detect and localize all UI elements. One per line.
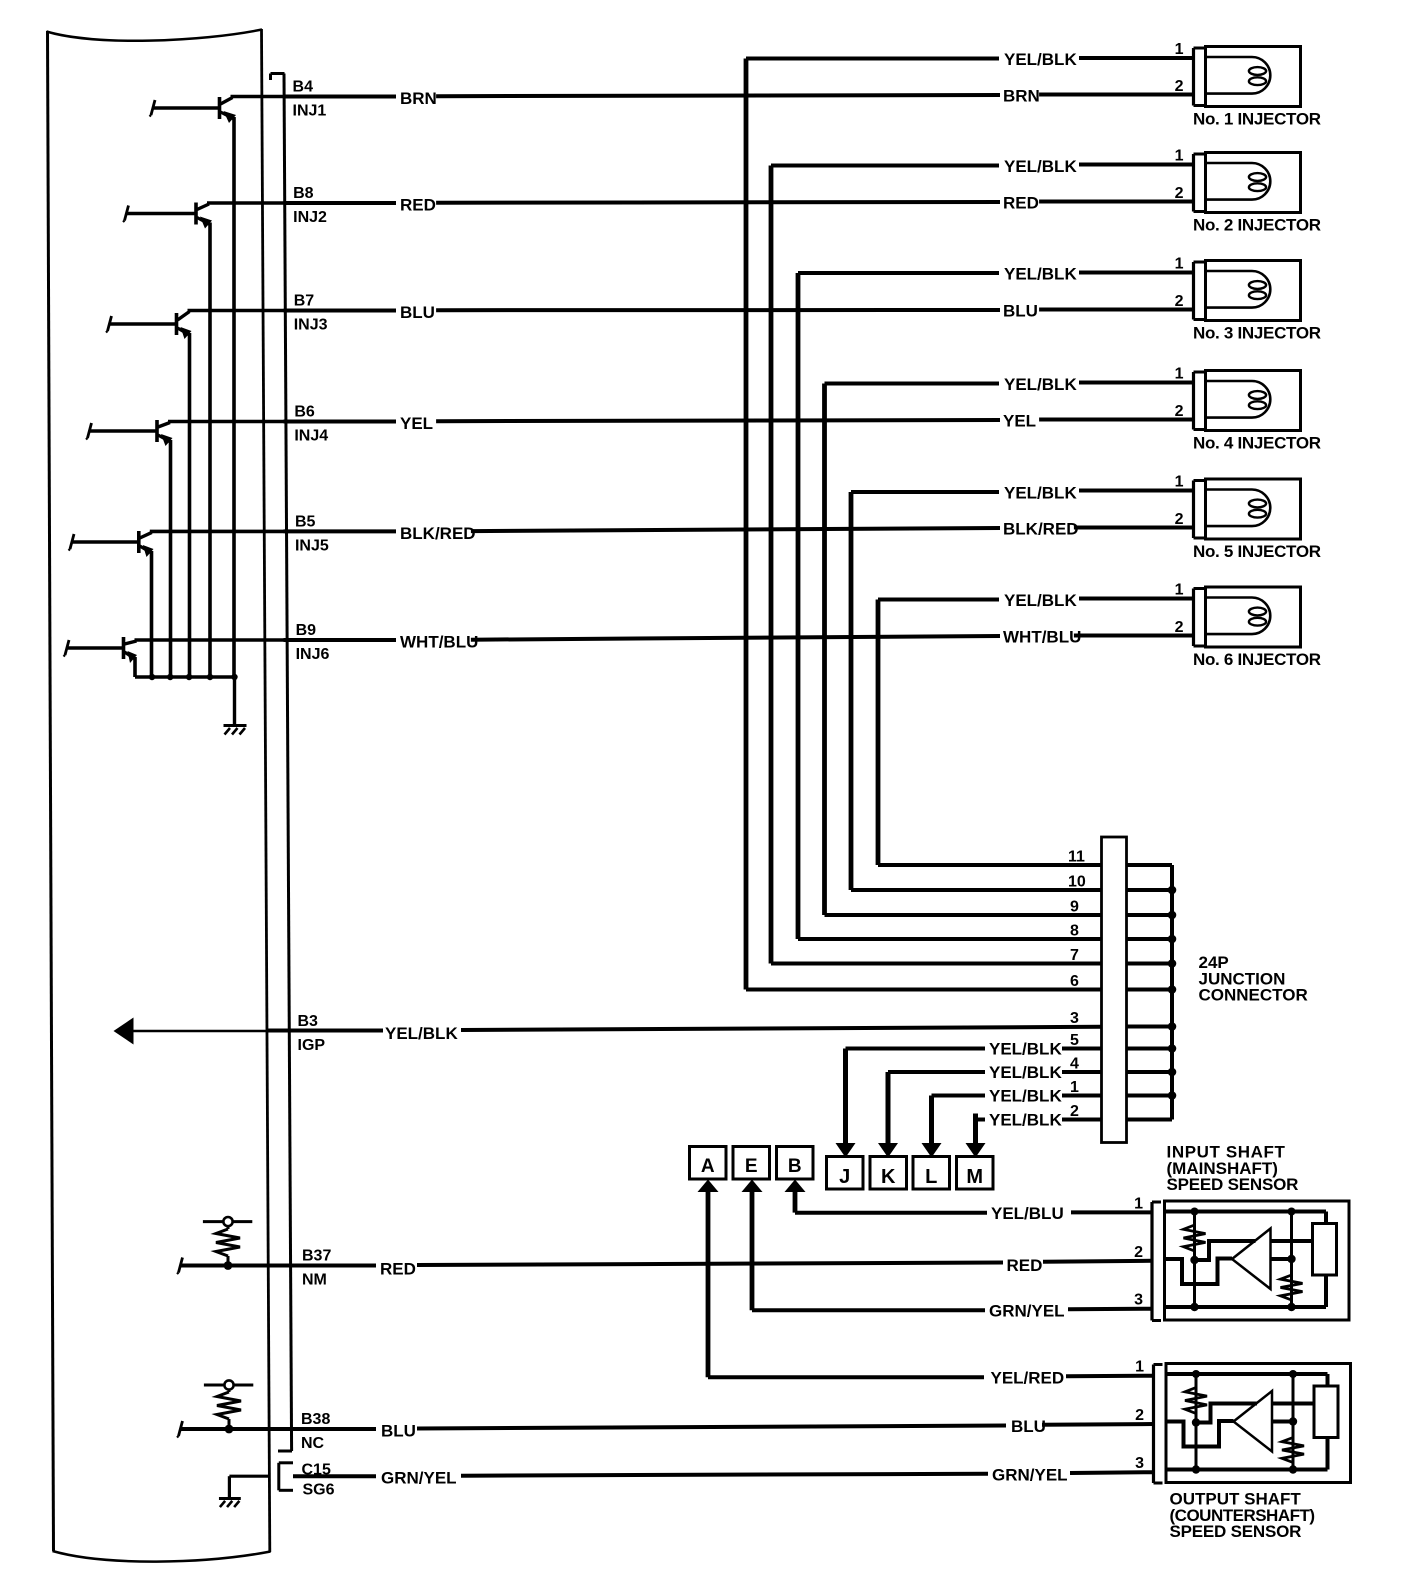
svg-text:10: 10 bbox=[1068, 874, 1086, 891]
svg-text:No. 6 INJECTOR: No. 6 INJECTOR bbox=[1193, 650, 1321, 669]
svg-text:1: 1 bbox=[1135, 1359, 1144, 1376]
svg-text:INJ3: INJ3 bbox=[294, 317, 328, 334]
svg-text:RED: RED bbox=[1003, 194, 1039, 213]
svg-text:3: 3 bbox=[1135, 1455, 1144, 1472]
svg-text:SG6: SG6 bbox=[303, 1482, 335, 1499]
svg-text:1: 1 bbox=[1070, 1079, 1079, 1096]
svg-text:2: 2 bbox=[1175, 78, 1184, 95]
svg-text:YEL/BLK: YEL/BLK bbox=[1004, 375, 1077, 394]
svg-text:GRN/YEL: GRN/YEL bbox=[992, 1466, 1068, 1485]
svg-text:8: 8 bbox=[1070, 923, 1079, 940]
svg-text:L: L bbox=[925, 1166, 937, 1188]
svg-text:RED: RED bbox=[380, 1260, 416, 1279]
svg-text:1: 1 bbox=[1175, 41, 1184, 58]
svg-text:YEL/BLK: YEL/BLK bbox=[1004, 50, 1077, 69]
svg-text:YEL/BLK: YEL/BLK bbox=[989, 1087, 1062, 1106]
svg-text:IGP: IGP bbox=[298, 1037, 326, 1054]
svg-text:B4: B4 bbox=[293, 79, 314, 96]
svg-text:INJ5: INJ5 bbox=[295, 537, 329, 554]
svg-text:GRN/YEL: GRN/YEL bbox=[381, 1469, 457, 1488]
svg-text:NM: NM bbox=[302, 1272, 327, 1289]
svg-text:No. 2 INJECTOR: No. 2 INJECTOR bbox=[1193, 216, 1321, 235]
svg-text:YEL/BLK: YEL/BLK bbox=[1004, 484, 1077, 503]
svg-text:BLK/RED: BLK/RED bbox=[400, 524, 476, 543]
svg-text:2: 2 bbox=[1134, 1244, 1143, 1261]
svg-text:B6: B6 bbox=[294, 404, 315, 421]
svg-text:E: E bbox=[745, 1156, 758, 1177]
svg-text:BLU: BLU bbox=[381, 1422, 416, 1441]
svg-text:BLU: BLU bbox=[400, 303, 435, 322]
svg-text:B5: B5 bbox=[295, 513, 316, 530]
svg-text:2: 2 bbox=[1175, 403, 1184, 420]
svg-text:WHT/BLU: WHT/BLU bbox=[1003, 628, 1081, 647]
svg-text:YEL/BLK: YEL/BLK bbox=[385, 1024, 458, 1043]
svg-text:BLU: BLU bbox=[1011, 1417, 1046, 1436]
svg-text:RED: RED bbox=[1007, 1256, 1043, 1275]
svg-text:2: 2 bbox=[1175, 511, 1184, 528]
svg-text:3: 3 bbox=[1134, 1292, 1143, 1309]
svg-text:9: 9 bbox=[1070, 899, 1079, 916]
svg-text:1: 1 bbox=[1175, 582, 1184, 599]
svg-text:7: 7 bbox=[1070, 947, 1079, 964]
svg-text:3: 3 bbox=[1070, 1010, 1079, 1027]
svg-text:B9: B9 bbox=[296, 622, 317, 639]
svg-text:2: 2 bbox=[1135, 1407, 1144, 1424]
svg-text:No. 3 INJECTOR: No. 3 INJECTOR bbox=[1193, 324, 1321, 343]
svg-text:No. 4 INJECTOR: No. 4 INJECTOR bbox=[1193, 434, 1321, 453]
svg-text:GRN/YEL: GRN/YEL bbox=[989, 1302, 1065, 1321]
svg-text:SPEED SENSOR: SPEED SENSOR bbox=[1167, 1175, 1299, 1194]
svg-text:No. 5 INJECTOR: No. 5 INJECTOR bbox=[1193, 542, 1321, 561]
svg-text:SPEED SENSOR: SPEED SENSOR bbox=[1170, 1522, 1302, 1541]
svg-text:YEL/BLK: YEL/BLK bbox=[1004, 157, 1077, 176]
svg-text:BRN: BRN bbox=[1003, 87, 1040, 106]
svg-text:1: 1 bbox=[1175, 366, 1184, 383]
svg-text:WHT/BLU: WHT/BLU bbox=[400, 633, 478, 652]
svg-text:A: A bbox=[701, 1156, 715, 1177]
svg-text:1: 1 bbox=[1175, 474, 1184, 491]
svg-text:4: 4 bbox=[1070, 1056, 1079, 1073]
svg-text:YEL/BLU: YEL/BLU bbox=[991, 1204, 1064, 1223]
svg-text:YEL/RED: YEL/RED bbox=[991, 1369, 1065, 1388]
svg-text:YEL/BLK: YEL/BLK bbox=[989, 1063, 1062, 1082]
svg-text:BRN: BRN bbox=[400, 89, 437, 108]
svg-text:YEL/BLK: YEL/BLK bbox=[1004, 265, 1077, 284]
svg-text:2: 2 bbox=[1175, 293, 1184, 310]
svg-text:YEL/BLK: YEL/BLK bbox=[989, 1040, 1062, 1059]
svg-text:B37: B37 bbox=[302, 1248, 331, 1265]
svg-text:YEL/BLK: YEL/BLK bbox=[989, 1111, 1062, 1130]
svg-text:C15: C15 bbox=[302, 1462, 331, 1479]
svg-text:6: 6 bbox=[1070, 973, 1079, 990]
svg-text:B3: B3 bbox=[298, 1013, 319, 1030]
svg-text:INJ2: INJ2 bbox=[293, 209, 327, 226]
svg-text:B38: B38 bbox=[301, 1411, 330, 1428]
svg-text:YEL: YEL bbox=[1003, 412, 1036, 431]
svg-text:K: K bbox=[881, 1166, 896, 1188]
svg-text:1: 1 bbox=[1175, 148, 1184, 165]
svg-text:1: 1 bbox=[1134, 1195, 1143, 1212]
svg-text:CONNECTOR: CONNECTOR bbox=[1199, 986, 1308, 1005]
svg-text:INJ4: INJ4 bbox=[294, 428, 328, 445]
svg-text:5: 5 bbox=[1070, 1032, 1079, 1049]
svg-text:1: 1 bbox=[1175, 256, 1184, 273]
svg-text:B: B bbox=[788, 1156, 802, 1177]
svg-text:YEL/BLK: YEL/BLK bbox=[1004, 591, 1077, 610]
svg-text:B8: B8 bbox=[293, 185, 314, 202]
svg-text:M: M bbox=[966, 1166, 983, 1188]
svg-text:2: 2 bbox=[1070, 1103, 1079, 1120]
svg-text:J: J bbox=[839, 1166, 850, 1188]
svg-text:B7: B7 bbox=[294, 293, 315, 310]
svg-text:BLK/RED: BLK/RED bbox=[1003, 520, 1079, 539]
svg-text:2: 2 bbox=[1175, 185, 1184, 202]
svg-text:NC: NC bbox=[301, 1435, 325, 1452]
svg-text:INJ1: INJ1 bbox=[293, 103, 327, 120]
svg-text:YEL: YEL bbox=[400, 414, 433, 433]
svg-text:BLU: BLU bbox=[1003, 302, 1038, 321]
svg-text:2: 2 bbox=[1175, 619, 1184, 636]
svg-text:RED: RED bbox=[400, 196, 436, 215]
svg-text:No. 1 INJECTOR: No. 1 INJECTOR bbox=[1193, 110, 1321, 129]
svg-text:INJ6: INJ6 bbox=[296, 646, 330, 663]
svg-text:11: 11 bbox=[1068, 849, 1085, 866]
